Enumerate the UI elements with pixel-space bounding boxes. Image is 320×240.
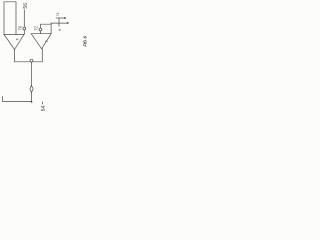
- op-amp U2: [31, 34, 51, 49]
- wire U1 output down: [15, 50, 30, 62]
- op-amp U1: [4, 35, 24, 50]
- wire circle2 up to node: [41, 24, 52, 28]
- arrow rail lower: [67, 22, 69, 24]
- wire U2 right corner up: [50, 23, 52, 34]
- svg-text:FIG. 6: FIG. 6: [82, 36, 87, 47]
- wire rail lower right: [51, 22, 68, 24]
- wire circle1 to U1: [23, 30, 25, 35]
- wire U2 output down: [33, 49, 42, 62]
- wire link rails: [58, 18, 60, 26]
- junction pot circle: [30, 59, 33, 62]
- sensor diamond: [30, 86, 33, 93]
- terminal circle input 1: [23, 27, 26, 30]
- leader line label 54: [41, 102, 43, 105]
- svg-text:74: 74: [56, 13, 60, 17]
- wire input leader top: [23, 10, 25, 27]
- wire junction down to diamond: [31, 62, 33, 85]
- arrow rail upper: [64, 17, 66, 19]
- svg-text:4: 4: [15, 38, 19, 40]
- svg-text:54: 54: [41, 105, 47, 111]
- wire circle2 to U2: [40, 31, 42, 34]
- svg-text:a: a: [56, 28, 61, 31]
- wire bottom horizontal: [3, 97, 32, 102]
- svg-text:2: 2: [44, 40, 48, 42]
- svg-text:70: 70: [18, 25, 23, 30]
- svg-text:56: 56: [23, 3, 29, 9]
- svg-text:72: 72: [34, 25, 39, 30]
- terminal circle input 2: [39, 28, 42, 31]
- node bottom dot: [31, 101, 33, 103]
- wire diamond to bottom node: [31, 92, 33, 102]
- wire feedback loop left: [4, 2, 16, 35]
- wire rail upper right: [57, 17, 66, 19]
